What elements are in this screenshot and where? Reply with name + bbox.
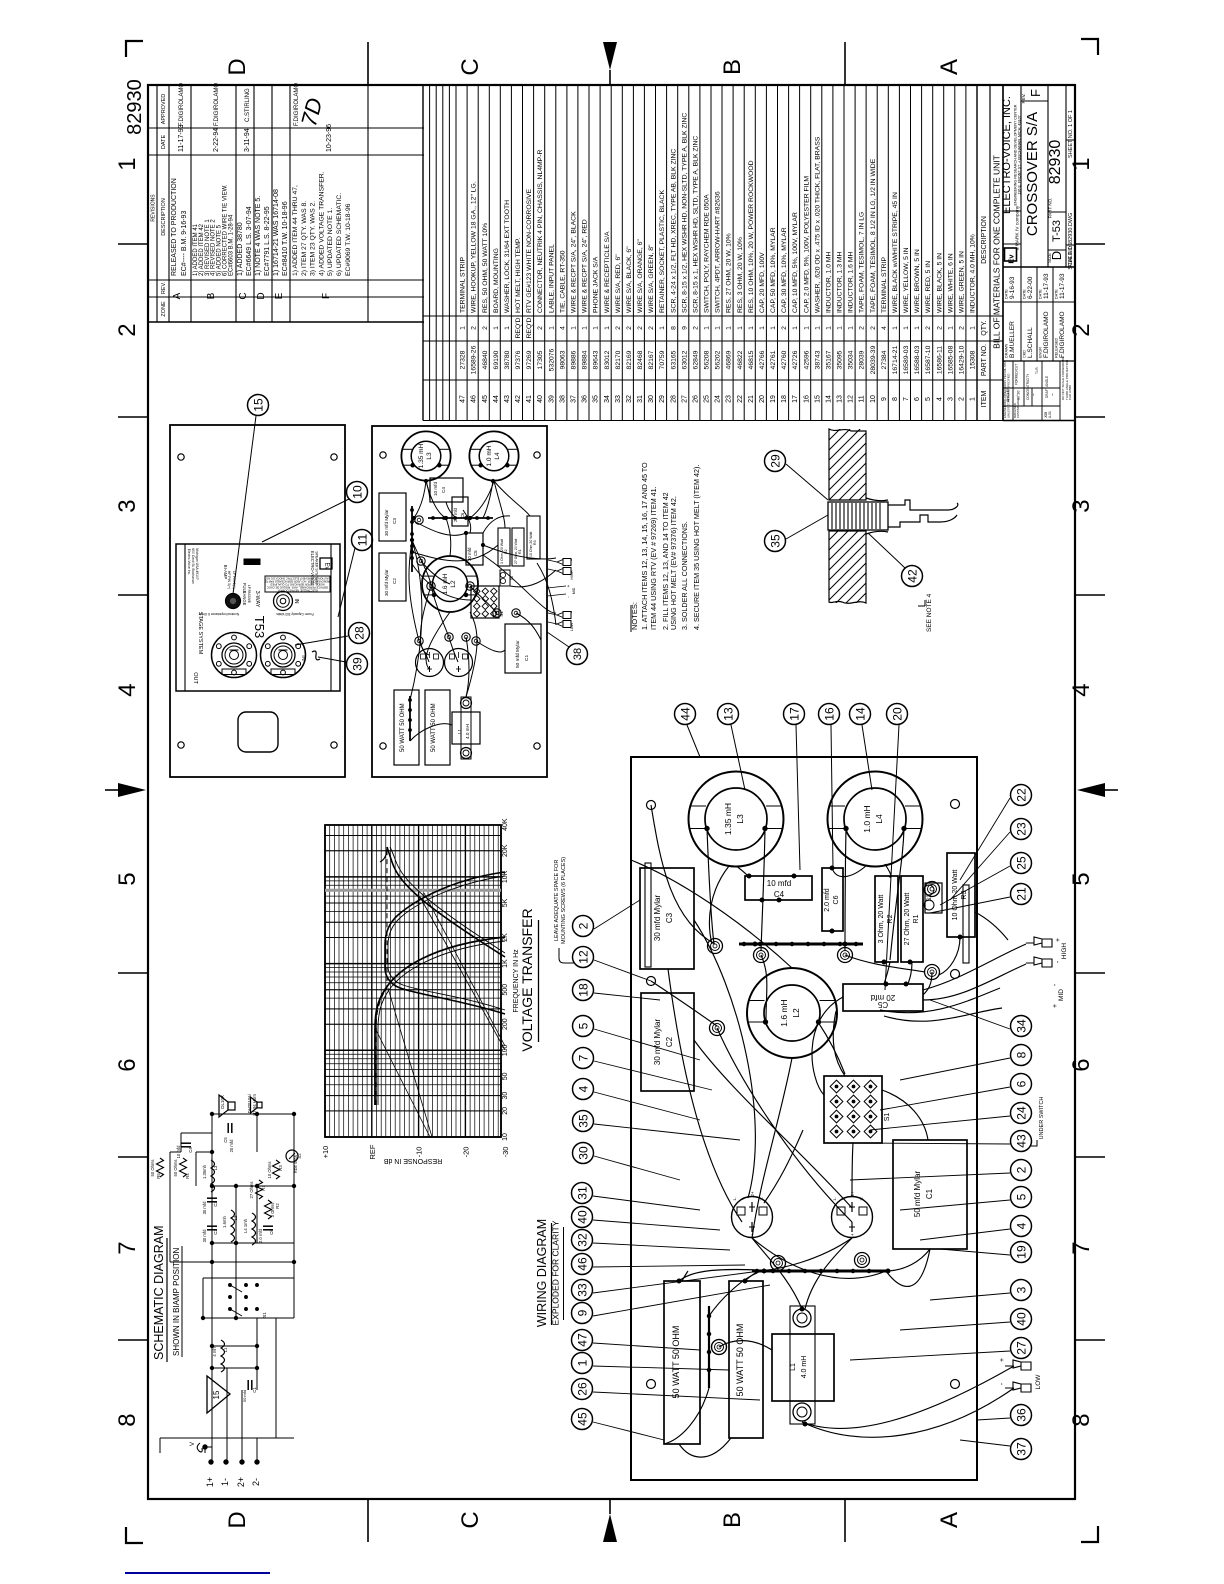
- svg-text:C2: C2: [392, 578, 397, 584]
- svg-text:62849: 62849: [692, 350, 699, 369]
- svg-text:A: A: [936, 1512, 963, 1528]
- svg-text:47: 47: [575, 1333, 589, 1347]
- svg-text:WIRING DIAGRAM: WIRING DIAGRAM: [535, 1219, 549, 1327]
- svg-text:RES, 50 OHM, 50 WATT 10%: RES, 50 OHM, 50 WATT 10%: [482, 223, 489, 313]
- svg-text:Ev: Ev: [324, 562, 330, 569]
- svg-text:APPROVED: APPROVED: [161, 94, 167, 125]
- svg-text:1: 1: [826, 326, 833, 330]
- svg-text:1: 1: [947, 326, 954, 330]
- svg-text:2+: 2+: [750, 1191, 755, 1197]
- svg-text:R3: R3: [278, 1165, 283, 1171]
- svg-text:6: 6: [114, 1058, 141, 1071]
- svg-text:3) ITEM 23 QTY. WAS 2.: 3) ITEM 23 QTY. WAS 2.: [310, 201, 317, 276]
- svg-text:2-: 2-: [251, 1478, 261, 1486]
- svg-text:16585-08: 16585-08: [947, 345, 954, 374]
- svg-text:D: D: [256, 292, 267, 299]
- svg-text:3: 3: [1068, 499, 1095, 512]
- svg-text:D: D: [224, 58, 251, 75]
- svg-text:LEAVE ADEQUATE SPACE FOR: LEAVE ADEQUATE SPACE FOR: [554, 860, 560, 941]
- svg-text:8: 8: [670, 326, 677, 330]
- svg-text:31: 31: [575, 1186, 589, 1200]
- svg-text:1: 1: [582, 326, 589, 330]
- svg-text:22: 22: [1014, 788, 1028, 802]
- svg-text:44: 44: [493, 395, 500, 403]
- svg-text:28039-39: 28039-39: [870, 345, 877, 374]
- svg-text:WASHER, LOCK, 31/64 EXT TOOTH: WASHER, LOCK, 31/64 EXT TOOTH: [504, 200, 511, 313]
- svg-text:CAP, 50 MFD, 10%, MYLAR: CAP, 50 MFD, 10%, MYLAR: [770, 227, 777, 313]
- svg-text:4: 4: [114, 683, 141, 696]
- svg-text:a MARK IV company: a MARK IV company: [1015, 205, 1021, 250]
- svg-text:46: 46: [471, 395, 478, 403]
- svg-text:2: 2: [471, 326, 478, 330]
- svg-text:2: 2: [959, 326, 966, 330]
- svg-text:15: 15: [814, 395, 821, 403]
- svg-text:22: 22: [737, 395, 744, 403]
- svg-text:1: 1: [837, 326, 844, 330]
- svg-text:VOLTAGE TRANSFER: VOLTAGE TRANSFER: [519, 908, 535, 1051]
- svg-text:10-23-96: 10-23-96: [326, 124, 333, 152]
- svg-text:9-16-93: 9-16-93: [1009, 276, 1016, 299]
- svg-text:R3: R3: [533, 540, 537, 545]
- svg-text:2.0 mfd: 2.0 mfd: [824, 888, 831, 911]
- svg-text:~: ~: [1031, 393, 1036, 396]
- svg-text:29: 29: [768, 454, 782, 468]
- svg-text:B: B: [206, 292, 217, 299]
- svg-text:4.0 mH: 4.0 mH: [465, 724, 470, 739]
- svg-text:REV.: REV.: [161, 281, 167, 294]
- svg-text:1: 1: [814, 326, 821, 330]
- svg-text:EXPLODED FOR CLARITY: EXPLODED FOR CLARITY: [551, 1220, 561, 1325]
- svg-text:7: 7: [1068, 1241, 1095, 1254]
- svg-text:R5: R5: [156, 1173, 161, 1179]
- svg-text:LABLE, INPUT PANEL: LABLE, INPUT PANEL: [548, 244, 555, 313]
- svg-text:35034: 35034: [848, 350, 855, 369]
- svg-text:DATE: DATE: [161, 135, 167, 150]
- svg-text:70759: 70759: [659, 350, 666, 369]
- svg-text:SCR, 4-24 x 1/2, FLT HD, XREC,: SCR, 4-24 x 1/2, FLT HD, XREC, TYPE AB, …: [670, 149, 677, 313]
- svg-text:4: 4: [1014, 1222, 1028, 1229]
- svg-text:600 Cecil St. Buchanan: 600 Cecil St. Buchanan: [191, 548, 195, 584]
- svg-text:40: 40: [537, 395, 544, 403]
- svg-text:20: 20: [890, 707, 904, 721]
- svg-text:MOUNTING SCREWS (6 PLACES): MOUNTING SCREWS (6 PLACES): [561, 857, 567, 944]
- svg-text:+: +: [1055, 938, 1062, 942]
- svg-text:97376: 97376: [515, 350, 522, 369]
- svg-text:82930: 82930: [124, 79, 146, 135]
- svg-text:A: A: [172, 292, 183, 299]
- svg-text:RES, 27 OHM, 20 W, 10%: RES, 27 OHM, 20 W, 10%: [726, 233, 733, 313]
- svg-text:1: 1: [575, 1359, 589, 1366]
- svg-text:2: 2: [537, 326, 544, 330]
- svg-text:STAGE SYSTEM: STAGE SYSTEM: [197, 612, 203, 655]
- svg-text:42726: 42726: [792, 350, 799, 369]
- svg-text:10: 10: [502, 1133, 509, 1141]
- svg-text:46: 46: [575, 1257, 589, 1271]
- svg-text:PART NO.: PART NO.: [1048, 198, 1053, 219]
- svg-text:-20: -20: [461, 1147, 470, 1158]
- svg-text:DATE: DATE: [1039, 289, 1043, 299]
- svg-text:1: 1: [726, 326, 733, 330]
- svg-text:1: 1: [970, 397, 977, 401]
- svg-text:1.6 mH: 1.6 mH: [442, 573, 449, 594]
- svg-text:INDUCTOR, 1.6 MH: INDUCTOR, 1.6 MH: [848, 251, 855, 313]
- svg-text:56202: 56202: [715, 350, 722, 369]
- svg-text:1: 1: [970, 326, 977, 330]
- svg-text:L4 1mh: L4 1mh: [243, 1218, 248, 1233]
- svg-text:30 mfd Mylar: 30 mfd Mylar: [653, 1019, 662, 1066]
- svg-text:CONCENTRICITY: CONCENTRICITY: [1026, 373, 1030, 400]
- svg-text:82468: 82468: [637, 350, 644, 369]
- svg-text:1: 1: [493, 326, 500, 330]
- svg-text:EC#6603 B.M. 1-28-: EC#6603 B.M. 1-28-94: [228, 214, 234, 276]
- svg-text:TAPE, FOAM, TESIMOL, 8 1/2 IN: TAPE, FOAM, TESIMOL, 8 1/2 IN LG, 1/2 IN…: [870, 158, 877, 313]
- svg-text:RDE 050A: RDE 050A: [294, 1155, 298, 1173]
- svg-text:35: 35: [576, 1114, 590, 1128]
- svg-text:39: 39: [548, 395, 555, 403]
- svg-text:RES, 3 OHM, 20 W, 10%: RES, 3 OHM, 20 W, 10%: [737, 237, 744, 313]
- svg-text:12: 12: [848, 395, 855, 403]
- svg-text:INDUCTOR, 1.0 MH: INDUCTOR, 1.0 MH: [826, 251, 833, 313]
- svg-text:10: 10: [350, 485, 364, 499]
- svg-text:17305: 17305: [537, 350, 544, 369]
- svg-text:11-17-93: 11-17-93: [1043, 273, 1050, 299]
- svg-text:D: D: [1049, 251, 1064, 260]
- svg-text:56208: 56208: [704, 350, 711, 369]
- svg-text:41: 41: [526, 395, 533, 403]
- svg-text:27: 27: [681, 395, 688, 403]
- svg-text:15: 15: [251, 398, 265, 412]
- svg-text:97269: 97269: [526, 350, 533, 369]
- svg-text:S1: S1: [262, 1312, 267, 1318]
- svg-text:18: 18: [781, 395, 788, 403]
- svg-text:2: 2: [1014, 1166, 1028, 1173]
- svg-text:REQ'D: REQ'D: [526, 317, 533, 338]
- svg-text:TIE, CABLE, RT-350: TIE, CABLE, RT-350: [559, 250, 566, 313]
- svg-text:27 Ohm, 20 Watt: 27 Ohm, 20 Watt: [904, 893, 911, 946]
- svg-text:WIRE & RECPT S/A, 24", BLACK: WIRE & RECPT S/A, 24", BLACK: [571, 211, 578, 313]
- svg-text:C: C: [238, 292, 249, 299]
- svg-text:23: 23: [1014, 822, 1028, 836]
- svg-text:30 mfd Mylar: 30 mfd Mylar: [384, 509, 389, 536]
- svg-text:C1: C1: [524, 655, 530, 661]
- svg-text:4: 4: [881, 326, 888, 330]
- svg-text:20K: 20K: [502, 844, 509, 857]
- svg-text:-30: -30: [501, 1147, 510, 1158]
- svg-text:20: 20: [502, 1107, 509, 1115]
- svg-text:16587-10: 16587-10: [925, 345, 932, 374]
- svg-text:82930: 82930: [1047, 140, 1064, 185]
- svg-text:8: 8: [1068, 1413, 1095, 1426]
- svg-text:DATE: DATE: [1055, 289, 1059, 299]
- svg-text:3-WAY: 3-WAY: [254, 591, 260, 608]
- svg-text:10 Ohms: 10 Ohms: [267, 1162, 272, 1179]
- svg-text:50 Ohms: 50 Ohms: [150, 1160, 155, 1177]
- svg-text:SCR, 8-15 x 1/2, HEX WSHR HD,: SCR, 8-15 x 1/2, HEX WSHR HD, NON-SLTD, …: [681, 113, 688, 313]
- svg-text:9: 9: [681, 326, 688, 330]
- svg-text:42596: 42596: [803, 350, 810, 369]
- svg-text:28: 28: [670, 395, 677, 403]
- svg-text:REVISIONS: REVISIONS: [151, 194, 157, 222]
- svg-text:50 WATT 50 OHM: 50 WATT 50 OHM: [671, 1326, 681, 1399]
- svg-text:HIGH: HIGH: [1061, 943, 1068, 960]
- svg-text:CKD: CKD: [1023, 350, 1027, 358]
- svg-text:35095: 35095: [837, 350, 844, 369]
- svg-text:18: 18: [576, 983, 590, 997]
- svg-text:4. SECURE ITEM 35 USING HOT M: 4. SECURE ITEM 35 USING HOT MELT (ITEM 4…: [692, 465, 701, 630]
- svg-text:2: 2: [859, 326, 866, 330]
- svg-text:200: 200: [502, 1018, 509, 1030]
- svg-text:6) UPDATED SCHEMATIC.: 6) UPDATED SCHEMATIC.: [336, 193, 343, 276]
- svg-text:+: +: [566, 584, 571, 587]
- svg-text:C1: C1: [925, 1188, 934, 1199]
- svg-text:45: 45: [575, 1412, 589, 1426]
- svg-text:DL10X: DL10X: [220, 1095, 225, 1109]
- svg-text:36: 36: [582, 395, 589, 403]
- svg-text:5: 5: [1068, 872, 1095, 885]
- svg-text:F.DIGIROLAMO: F.DIGIROLAMO: [1059, 311, 1066, 358]
- svg-text:28: 28: [352, 626, 366, 640]
- svg-text:EC#8410 T.W. 10-18-: EC#8410 T.W. 10-18-96: [282, 201, 289, 276]
- svg-text:43: 43: [1014, 1134, 1028, 1148]
- svg-text:38743: 38743: [814, 350, 821, 369]
- svg-text:13: 13: [837, 395, 844, 403]
- svg-text:SWITCH, POLY, RAYCHEM RDE 050A: SWITCH, POLY, RAYCHEM RDE 050A: [704, 194, 711, 313]
- svg-text:R1: R1: [261, 1185, 266, 1191]
- svg-text:1.6 mH: 1.6 mH: [779, 999, 789, 1026]
- svg-text:8: 8: [114, 1413, 141, 1426]
- svg-text:2: 2: [626, 326, 633, 330]
- svg-text:SWITCH, 4PDT, ARROW-HART #8263: SWITCH, 4PDT, ARROW-HART #82636: [715, 191, 722, 313]
- svg-text:CAP, 2.0 MFD, 5%, 100V, POLYES: CAP, 2.0 MFD, 5%, 100V, POLYESTER FILM: [803, 176, 810, 313]
- svg-text:1: 1: [704, 326, 711, 330]
- svg-text:40: 40: [1014, 1312, 1028, 1326]
- svg-text:C3: C3: [665, 912, 674, 923]
- svg-text:WIRE S/A, GREEN, 8": WIRE S/A, GREEN, 8": [648, 244, 655, 313]
- svg-text:WIRE, BLACK w/WHITE STRIPE, 45: WIRE, BLACK w/WHITE STRIPE, 45 IN: [892, 192, 899, 313]
- svg-text:CAP, 20 MFD, 100V: CAP, 20 MFD, 100V: [759, 252, 766, 313]
- svg-text:1.35 mH: 1.35 mH: [723, 803, 733, 835]
- svg-text:28039: 28039: [859, 350, 866, 369]
- svg-text:F: F: [321, 293, 332, 299]
- svg-text:12: 12: [576, 950, 590, 964]
- svg-text:IN: IN: [293, 599, 299, 604]
- svg-text:BILL OF MATERIALS FOR ONE COMP: BILL OF MATERIALS FOR ONE COMPLETE UNIT: [992, 155, 1002, 349]
- svg-text:25: 25: [1014, 856, 1028, 870]
- svg-text:5: 5: [925, 397, 932, 401]
- svg-text:SEE NOTE 4: SEE NOTE 4: [926, 593, 933, 632]
- svg-text:16588-03: 16588-03: [914, 345, 921, 374]
- svg-text:1: 1: [593, 326, 600, 330]
- svg-text:C6: C6: [833, 895, 840, 904]
- svg-text:1: 1: [504, 326, 511, 330]
- svg-text:37: 37: [1014, 1442, 1028, 1456]
- svg-text:10 mfd: 10 mfd: [176, 1145, 181, 1158]
- svg-text:C3: C3: [213, 1201, 218, 1207]
- svg-text:31: 31: [637, 395, 644, 403]
- svg-text:37: 37: [571, 395, 578, 403]
- svg-text:27384: 27384: [881, 350, 888, 369]
- svg-text:4: 4: [559, 326, 566, 330]
- svg-text:4.0 mH: 4.0 mH: [801, 1356, 808, 1379]
- svg-text:1: 1: [548, 326, 555, 330]
- svg-text:16589-26: 16589-26: [471, 345, 478, 374]
- svg-text:SCHEMATIC DIAGRAM: SCHEMATIC DIAGRAM: [152, 1226, 166, 1361]
- svg-text:33: 33: [615, 395, 622, 403]
- svg-text:1) ADDED 38780: 1) ADDED 38780: [237, 222, 244, 276]
- svg-text:T.I.R.: T.I.R.: [1035, 366, 1039, 374]
- svg-text:R2: R2: [887, 914, 894, 923]
- svg-text:26: 26: [575, 1382, 589, 1396]
- svg-text:ELECTRO-VOICE, INC.: ELECTRO-VOICE, INC.: [1001, 96, 1013, 214]
- svg-text:5K: 5K: [502, 898, 509, 907]
- svg-text:DATE: DATE: [1023, 289, 1027, 299]
- svg-text:2: 2: [1068, 323, 1095, 336]
- svg-text:A: A: [936, 59, 963, 75]
- svg-text:C5: C5: [473, 550, 478, 556]
- svg-text:5) UPDATED NOTE 1.: 5) UPDATED NOTE 1.: [327, 208, 334, 276]
- svg-text:PHONE JACK S/A: PHONE JACK S/A: [593, 256, 600, 313]
- svg-text:20 mfd: 20 mfd: [229, 1139, 234, 1152]
- svg-text:1: 1: [659, 326, 666, 330]
- svg-text:ZONE: ZONE: [161, 301, 167, 317]
- svg-text:C.STIRLING: C.STIRLING: [245, 88, 251, 122]
- svg-text:1.35mh: 1.35mh: [202, 1164, 207, 1179]
- svg-text:CAD A/588: CAD A/588: [1068, 385, 1072, 400]
- svg-text:C2: C2: [665, 1036, 674, 1047]
- svg-text:Nominal Impedance 8 Ohms: Nominal Impedance 8 Ohms: [198, 612, 239, 616]
- svg-text:32: 32: [575, 1233, 589, 1247]
- svg-text:+: +: [999, 1358, 1006, 1362]
- svg-text:HOT MELT, HIGH TEMP.: HOT MELT, HIGH TEMP.: [515, 237, 522, 313]
- svg-text:1: 1: [748, 326, 755, 330]
- svg-text:38: 38: [572, 648, 584, 660]
- svg-text:1+: 1+: [205, 1477, 215, 1487]
- svg-text:FORMED/CUT: FORMED/CUT: [1015, 364, 1019, 385]
- svg-text:2: 2: [781, 326, 788, 330]
- svg-text:RANGE: RANGE: [242, 591, 247, 606]
- svg-text:EC#7791 L.S. 8-22-: EC#7791 L.S. 8-22-95: [264, 206, 271, 276]
- svg-text:32: 32: [626, 395, 633, 403]
- svg-text:V: V: [190, 1442, 196, 1446]
- svg-text:27 Ohms: 27 Ohms: [249, 1182, 254, 1199]
- svg-text:RESPONSE IN dB: RESPONSE IN dB: [383, 1157, 442, 1164]
- svg-text:46815: 46815: [748, 350, 755, 369]
- svg-text:11: 11: [355, 533, 369, 546]
- svg-text:F.DIGIROLAMO: F.DIGIROLAMO: [179, 83, 185, 126]
- svg-text:24: 24: [1014, 1106, 1028, 1120]
- svg-text:16714-21: 16714-21: [892, 345, 899, 374]
- svg-text:14: 14: [853, 707, 867, 721]
- svg-text:RTV GE#123 WHITE NON-CORROSIVE: RTV GE#123 WHITE NON-CORROSIVE: [526, 188, 533, 313]
- svg-text:WIRE S/A, ORANGE, 6": WIRE S/A, ORANGE, 6": [637, 239, 644, 313]
- svg-text:7: 7: [903, 397, 910, 401]
- svg-text:20: 20: [759, 395, 766, 403]
- svg-text:6: 6: [914, 397, 921, 401]
- svg-text:C2: C2: [213, 1229, 218, 1235]
- svg-text:17: 17: [787, 707, 801, 721]
- svg-text:23: 23: [726, 395, 733, 403]
- svg-text:4: 4: [576, 1085, 590, 1092]
- svg-text:16589-03: 16589-03: [903, 345, 910, 374]
- svg-text:89886: 89886: [571, 350, 578, 369]
- svg-text:REF: REF: [368, 1144, 377, 1159]
- svg-text:F: F: [1028, 89, 1043, 97]
- svg-text:2: 2: [648, 326, 655, 330]
- svg-text:BOARD, MOUNTING: BOARD, MOUNTING: [493, 248, 500, 313]
- svg-text:WIRE, BLACK, 5 IN: WIRE, BLACK, 5 IN: [936, 253, 943, 313]
- svg-text:R2: R2: [275, 1203, 280, 1209]
- svg-text:30 mfd: 30 mfd: [202, 1229, 207, 1242]
- svg-text:DATE: DATE: [1005, 289, 1009, 299]
- svg-text:1: 1: [803, 326, 810, 330]
- svg-text:2: 2: [615, 326, 622, 330]
- svg-text:LP PASSIVE: LP PASSIVE: [247, 585, 251, 603]
- svg-text:4 mh: 4 mh: [212, 1347, 217, 1357]
- svg-text:46822: 46822: [737, 350, 744, 369]
- svg-text:50 Ohms: 50 Ohms: [173, 1160, 178, 1177]
- svg-text:CONNECTOR, NEUTRIK 4 PIN, CHAS: CONNECTOR, NEUTRIK 4 PIN, CHASSIS, NL4MP…: [537, 150, 544, 313]
- svg-text:TERMINAL STRIP: TERMINAL STRIP: [881, 257, 888, 313]
- svg-text:RETAINER, SOCKET, PLASTIC, BLA: RETAINER, SOCKET, PLASTIC, BLACK: [659, 190, 666, 313]
- svg-text:38780: 38780: [504, 350, 511, 369]
- svg-text:T-53: T-53: [1051, 220, 1063, 242]
- svg-text:C3: C3: [392, 518, 397, 524]
- svg-text:C6: C6: [269, 1229, 274, 1235]
- svg-text:L1: L1: [790, 1363, 797, 1371]
- svg-text:CAP, 30 MFD, 10%, MYLAR: CAP, 30 MFD, 10%, MYLAR: [781, 227, 788, 313]
- svg-text:L2: L2: [791, 1008, 801, 1018]
- svg-text:LOW: LOW: [570, 622, 574, 631]
- svg-text:L1: L1: [223, 1347, 228, 1352]
- svg-text:42761: 42761: [770, 350, 777, 369]
- svg-text:50: 50: [502, 1072, 509, 1080]
- svg-text:USING HOT MELT (EV# 97376) ITE: USING HOT MELT (EV# 97376) ITEM 42.: [669, 496, 678, 630]
- svg-text:21: 21: [1014, 887, 1028, 901]
- svg-text:45: 45: [482, 395, 489, 403]
- svg-text:2) ITEM 27 QTY. WAS 8.: 2) ITEM 27 QTY. WAS 8.: [301, 201, 308, 276]
- svg-text:30: 30: [502, 1092, 509, 1100]
- svg-text:L2: L2: [233, 1215, 238, 1220]
- svg-text:R4: R4: [185, 1173, 190, 1179]
- svg-text:ENGR: ENGR: [1039, 347, 1043, 358]
- svg-text:L3: L3: [213, 1165, 218, 1170]
- svg-text:500: 500: [502, 984, 509, 996]
- svg-text:5: 5: [114, 872, 141, 885]
- svg-text:L4: L4: [494, 452, 501, 460]
- svg-text:1: 1: [792, 326, 799, 330]
- svg-text:1.0 mH: 1.0 mH: [486, 445, 493, 466]
- svg-text:1: 1: [903, 326, 910, 330]
- svg-text:R1: R1: [518, 549, 522, 554]
- svg-text:50 WATT 50 OHM: 50 WATT 50 OHM: [400, 703, 406, 752]
- svg-text:50 mfd: 50 mfd: [242, 1390, 247, 1402]
- svg-text:-10: -10: [415, 1147, 424, 1158]
- svg-text:1: 1: [770, 326, 777, 330]
- svg-text:40: 40: [575, 1210, 589, 1224]
- svg-text:4) ADDED VOLTAGE TRANSFER.: 4) ADDED VOLTAGE TRANSFER.: [318, 171, 325, 276]
- svg-text:43: 43: [504, 395, 511, 403]
- svg-text:1) NOTE 4 WAS NOTE 5.: 1) NOTE 4 WAS NOTE 5.: [255, 196, 262, 276]
- svg-text:ITEM: ITEM: [981, 390, 988, 407]
- svg-text:R1: R1: [913, 914, 920, 923]
- svg-text:50 WATT 50 OHM: 50 WATT 50 OHM: [735, 1324, 745, 1397]
- svg-text:~: ~: [1050, 393, 1055, 396]
- svg-text:DRAWN: DRAWN: [1005, 344, 1009, 358]
- svg-text:14: 14: [826, 395, 833, 403]
- svg-text:10 mfd: 10 mfd: [433, 482, 438, 496]
- svg-text:L.SCHALL: L.SCHALL: [1027, 327, 1034, 358]
- svg-text:RES, 10 OHM, 10%, 20 W, POWER: RES, 10 OHM, 10%, 20 W, POWER ROCKWOOD: [748, 160, 755, 313]
